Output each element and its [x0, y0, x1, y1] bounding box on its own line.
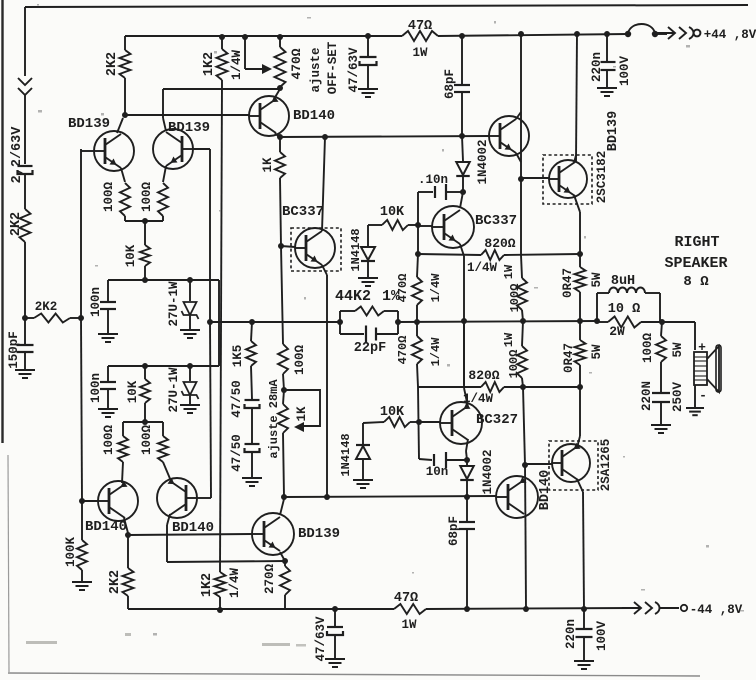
page border bottom-left corner: [8, 455, 9, 672]
transistor Q10 BC327 limiter bottom: [440, 402, 482, 444]
capacitor .10n top: [418, 191, 433, 193]
ground 100n lower: [98, 408, 118, 410]
label -44.8V: [690, 603, 743, 617]
svg-text:0R47: 0R47: [561, 268, 575, 298]
svg-text:1K2: 1K2: [200, 573, 215, 597]
wire Q13 emitter: [577, 436, 580, 448]
wire lower tail join: [123, 421, 163, 423]
wire Q2 emitter: [163, 166, 166, 182]
node 1K2 rail: [219, 34, 225, 40]
svg-text:47Ω: 47Ω: [408, 19, 432, 34]
wire feedback node line: [210, 321, 340, 323]
resistor 100R 1W upper: [521, 255, 522, 278]
svg-text:100V: 100V: [618, 56, 632, 87]
node Q12 collector rail: [523, 606, 529, 612]
resistor 10K limiter bottom: [384, 417, 410, 427]
svg-text:BC327: BC327: [476, 412, 518, 428]
node BD139 bottom collector: [281, 494, 287, 500]
svg-text:1/4W: 1/4W: [228, 568, 242, 599]
resistor 100R lower pair right: [158, 436, 168, 462]
node Q1 collector: [122, 112, 128, 118]
node input net: [78, 315, 84, 321]
node 10K row lower: [142, 363, 148, 369]
wire Q7 emitter: [460, 244, 464, 256]
svg-text:10 Ω: 10 Ω: [608, 302, 640, 317]
svg-text:100Ω: 100Ω: [140, 425, 154, 456]
node 10K row: [142, 277, 148, 283]
arrow chevrons -44.8V: [622, 602, 660, 614]
resistor 10K tail: [140, 245, 150, 266]
wire bias row lower: [108, 365, 219, 367]
capacitor 10n bottom: [419, 459, 432, 460]
terminal circle +44.8V: [694, 30, 701, 37]
svg-text:1N4002: 1N4002: [476, 139, 490, 184]
wire output bus: [398, 321, 597, 322]
capacitor 22pF feedback: [340, 333, 364, 335]
wire Q4 emitter: [163, 462, 171, 481]
wire 100R column to base node: [523, 387, 525, 465]
wire speaker to ground: [694, 385, 696, 407]
wire Q2 collector: [163, 118, 166, 131]
transistor Q8 BD139 driver right: [489, 116, 529, 156]
svg-text:100n: 100n: [89, 287, 103, 317]
ground speaker: [686, 407, 704, 409]
resistor 1K Q5 collector: [279, 137, 281, 152]
ground zener lower: [180, 404, 200, 406]
node 1K2 bottom rail: [217, 607, 223, 613]
label right speaker: [674, 234, 719, 251]
node clamp top: [460, 189, 466, 195]
svg-text:100Ω: 100Ω: [507, 350, 521, 379]
ground 47/63V: [358, 88, 378, 90]
ground 220n rail: [597, 87, 617, 89]
capacitor 150pF to ground: [24, 318, 26, 344]
svg-text:100Ω: 100Ω: [140, 182, 154, 213]
inductor 8uH: [596, 293, 598, 321]
ground 47/63V bottom: [325, 658, 345, 660]
node 68pF line: [459, 133, 465, 139]
svg-text:1K2: 1K2: [202, 52, 217, 76]
wire 2K2 down: [124, 78, 126, 115]
node 100R column output: [520, 318, 526, 324]
node BC337 base: [278, 243, 284, 249]
svg-text:2SA1265: 2SA1265: [599, 439, 613, 492]
resistor 820R 1/4W bottom: [481, 382, 504, 392]
node 100R column bottom: [520, 384, 526, 390]
diode 1N4002 top: [462, 136, 463, 161]
wire pre-driver line: [280, 136, 489, 137]
svg-text:1N4148: 1N4148: [349, 228, 363, 271]
node output rail emitters: [577, 318, 583, 324]
diode 1N4148 bottom: [362, 423, 364, 444]
wire Q2 collector to BD140 emitter line: [163, 88, 280, 90]
svg-text:BD139: BD139: [606, 111, 621, 152]
wire lower driver line: [284, 496, 497, 497]
node 68pF bottom: [464, 494, 470, 500]
wire trimpot wiper link: [244, 37, 246, 69]
wire Q1 collector: [117, 118, 123, 133]
resistor 10K lower tail: [144, 366, 146, 379]
svg-text:0R47: 0R47: [562, 343, 576, 373]
wire Q3 base: [82, 500, 99, 502]
node trimpot wiper link rail: [242, 34, 248, 40]
svg-text:22pF: 22pF: [354, 341, 386, 356]
svg-text:1/4W: 1/4W: [429, 273, 443, 303]
page border left edge: [1, 0, 3, 443]
svg-text:100Ω: 100Ω: [102, 425, 116, 456]
capacitor 47/50 feedback lower: [245, 443, 260, 445]
node output: [659, 319, 665, 325]
svg-text:470Ω: 470Ω: [289, 48, 304, 79]
wire Q11 collector: [280, 499, 284, 515]
capacitor 47/63V bottom: [334, 609, 336, 626]
node Q11 emitter: [282, 558, 288, 564]
capacitor 2,2/63V input coupling: [18, 165, 33, 167]
wire Q1 base: [81, 150, 95, 152]
wire driver bottom collector row: [128, 534, 252, 535]
svg-text:47Ω: 47Ω: [394, 591, 418, 606]
node 47/63V bottom: [332, 606, 338, 612]
svg-text:-44 ,8V: -44 ,8V: [690, 603, 743, 617]
node 0R47 top: [577, 251, 583, 257]
resistor 0R47 5W upper: [579, 254, 581, 267]
svg-text:2K2: 2K2: [9, 212, 24, 236]
wire to +44.8V terminal: [655, 33, 667, 35]
svg-text:68pF: 68pF: [443, 69, 457, 99]
node lower base: [79, 498, 85, 504]
svg-text:2K2: 2K2: [35, 300, 58, 314]
wire BC337 base: [281, 246, 295, 247]
svg-text:SPEAKER: SPEAKER: [664, 255, 727, 272]
resistor 1K5 feedback shunt: [251, 322, 252, 341]
node tail: [142, 218, 148, 224]
node 68pF rail: [459, 33, 465, 39]
node 47/63V rail: [365, 33, 371, 39]
svg-text:BC337: BC337: [282, 204, 324, 220]
node 44K2 left: [337, 319, 343, 325]
svg-text:820Ω: 820Ω: [468, 368, 499, 383]
node BC327 base: [416, 419, 422, 425]
wire Q10 emitter: [464, 388, 468, 407]
wire Q2 base: [193, 148, 210, 150]
svg-text:10n: 10n: [426, 465, 449, 479]
svg-text:2K2: 2K2: [108, 570, 123, 594]
wire Q8 collector: [516, 112, 521, 119]
node lower tail: [142, 419, 148, 425]
wire input column lower: [24, 242, 26, 318]
svg-text:44K2: 44K2: [335, 288, 371, 305]
wire to speaker: [662, 321, 695, 323]
transistor Q3 BD140 lower left: [98, 481, 138, 521]
node emitter column output: [461, 318, 467, 324]
wire Q9 collector: [574, 155, 576, 163]
ground 100K: [72, 581, 92, 583]
page border bottom edge: [8, 673, 700, 676]
resistor 2K2 input series: [20, 209, 31, 242]
svg-text:1W: 1W: [502, 332, 516, 347]
node 470R bottom: [277, 85, 283, 91]
wire clamp to base: [417, 192, 419, 225]
wire 2SA1265 base: [525, 463, 552, 465]
resistor 2K2 horizontal to input node: [35, 300, 58, 314]
wire input column upper: [24, 95, 26, 164]
svg-text:1K: 1K: [261, 157, 275, 173]
wire Q13 collector: [577, 479, 583, 492]
svg-text:270Ω: 270Ω: [263, 564, 277, 595]
transistor Q5 BD140 driver top: [249, 96, 289, 136]
node output mid: [414, 319, 420, 325]
wire 820R row bottom: [418, 386, 481, 388]
node VAS emitter bottom: [324, 494, 330, 500]
svg-text:47/50: 47/50: [230, 380, 244, 418]
svg-text:BD139: BD139: [298, 526, 340, 542]
svg-text:1N4002: 1N4002: [481, 449, 495, 494]
arrow trimpot wiper: [262, 64, 272, 74]
node coil left: [594, 318, 600, 324]
wire 470R column top: [417, 225, 419, 254]
node 1K5 divider: [249, 319, 255, 325]
node BD139 right collector rail: [518, 31, 524, 37]
svg-text:1N4148: 1N4148: [339, 433, 353, 476]
wire Q2 base long vertical: [209, 149, 211, 322]
svg-text:2K2: 2K2: [105, 52, 120, 76]
svg-text:47/63V: 47/63V: [347, 47, 361, 93]
trimpot 470R ajuste OFF-SET: [275, 47, 286, 87]
wire Q12 emitter: [524, 465, 527, 530]
terminal circle -44.8V: [681, 605, 687, 611]
ground 1N4148 top: [358, 277, 378, 279]
wire pot wiper loop: [284, 390, 320, 426]
resistor 1K2 bottom: [215, 572, 226, 597]
node VAS collector line: [322, 134, 328, 140]
wire Q5 collector: [275, 133, 280, 138]
diode 1N4002 bottom: [466, 460, 468, 465]
resistor 0R47 5W lower: [579, 321, 581, 340]
svg-text:1W: 1W: [502, 264, 516, 279]
node 0R47 bottom: [577, 384, 583, 390]
svg-text:100Ω: 100Ω: [641, 333, 655, 364]
fuse top rail: [625, 31, 631, 37]
resistor 10R 2W output: [608, 317, 641, 328]
svg-text:470Ω: 470Ω: [396, 336, 410, 365]
wire Q3 emitter: [122, 462, 123, 483]
capacitor 47/63V rail decoupling: [360, 56, 377, 58]
wire input column mid: [24, 175, 26, 209]
svg-text:OFF-SET: OFF-SET: [326, 41, 340, 94]
svg-text:1K: 1K: [295, 406, 309, 422]
svg-text:100Ω: 100Ω: [293, 345, 307, 376]
wire Q7 emitter column: [463, 256, 465, 385]
svg-text:220n: 220n: [564, 619, 578, 649]
wire 470R lower to row: [418, 387, 419, 459]
svg-text:220n: 220n: [590, 52, 604, 82]
svg-text:68pF: 68pF: [447, 516, 461, 546]
transistor Q2 BD139 input right: [153, 129, 193, 169]
svg-text:100Ω: 100Ω: [102, 182, 116, 213]
svg-text:8uH: 8uH: [611, 274, 635, 289]
input marker chevrons: [18, 78, 32, 85]
resistor 100R lower pair left: [118, 436, 128, 462]
svg-text:RIGHT: RIGHT: [674, 234, 719, 251]
svg-text:2W: 2W: [609, 324, 625, 339]
svg-text:27U-1W: 27U-1W: [167, 281, 181, 327]
transistor Q6 BC337 VAS: [291, 228, 341, 271]
transistor Q9 2SC3182 output top: [543, 155, 592, 204]
node bias pot top: [281, 387, 287, 393]
wire Q9 emitter: [574, 195, 580, 212]
ground feedback caps: [242, 477, 262, 479]
node 44K2 right: [395, 319, 401, 325]
transistor Q12 BD140 driver output bottom: [496, 476, 538, 518]
svg-text:100n: 100n: [89, 373, 103, 403]
resistor 270R: [284, 561, 286, 566]
wire Q7 base: [418, 225, 432, 227]
svg-text:1K5: 1K5: [231, 345, 245, 368]
svg-text:5W: 5W: [671, 342, 685, 358]
transistor Q13 2SA1265 output bottom: [549, 441, 598, 490]
wire tail down: [144, 221, 146, 245]
svg-text:-: -: [699, 388, 707, 403]
wire Q4 collector row: [167, 561, 285, 562]
resistor 47R 1W top rail: [402, 31, 438, 41]
wire Q11 emitter: [280, 552, 285, 561]
resistor 100R 5W zobel: [661, 322, 662, 336]
capacitor 220n 100V bottom: [583, 609, 585, 628]
scan noise dashes bottom: [26, 633, 306, 647]
capacitor 68pF bottom: [466, 497, 468, 521]
wire Q8 base: [488, 135, 490, 137]
svg-text:BD139: BD139: [168, 120, 210, 136]
capacitor 47/50 feedback upper: [245, 399, 260, 401]
node BC337R base: [415, 222, 421, 228]
node clamp bottom: [464, 457, 470, 463]
wire 820R row top: [418, 254, 481, 255]
wire Q7-Q10 emitter column lower: [463, 321, 465, 388]
svg-text:1/4W: 1/4W: [467, 261, 498, 275]
diode 1N4148 top: [367, 225, 369, 246]
node zener row lower: [187, 363, 193, 369]
resistor 10K limiter top: [382, 220, 408, 230]
svg-text:5W: 5W: [590, 272, 604, 288]
svg-text:BD140: BD140: [538, 470, 553, 511]
ground zobel: [651, 424, 671, 426]
capacitor 220N 250V zobel: [652, 392, 670, 394]
node 220n rail: [604, 31, 610, 37]
ground 1N4148 bottom: [353, 479, 373, 481]
wire 1K2 long line down to lower stage: [220, 80, 222, 572]
node Q3 collector: [125, 532, 131, 538]
svg-text:150pF: 150pF: [7, 331, 21, 369]
resistor 47R 1W bottom rail: [394, 604, 426, 614]
svg-text:10K: 10K: [380, 205, 405, 220]
svg-text:2,2/63V: 2,2/63V: [10, 126, 25, 184]
wire Q8 emitter to 100R column: [520, 179, 522, 255]
resistor 100R bias chain: [281, 246, 283, 344]
wire +44.8V rail: [125, 35, 402, 37]
wire bias row upper: [108, 279, 219, 281]
wire Q12 collector: [525, 530, 528, 609]
svg-text:470Ω: 470Ω: [396, 274, 410, 303]
node 2K2 rail: [124, 36, 126, 50]
resistor 1K2 1/4W: [217, 49, 228, 80]
wire bias chain down: [283, 433, 284, 497]
ground 100n upper: [98, 333, 118, 335]
node 820R row top: [415, 251, 421, 257]
svg-text:ajuste: ajuste: [309, 47, 323, 92]
wire -44.8V rail: [128, 608, 394, 610]
capacitor 100n upper: [107, 280, 109, 301]
resistor 820R 1/4W top: [481, 250, 504, 260]
resistor 470R 1/4W lower: [416, 322, 418, 336]
svg-text:47/50: 47/50: [230, 434, 244, 472]
ground 150pF: [15, 369, 35, 371]
node 2SC3182 base: [518, 176, 524, 182]
svg-text:ajuste 28mA: ajuste 28mA: [267, 379, 281, 459]
resistor 100R Q1 emitter: [120, 183, 130, 216]
label +44.8V: [704, 28, 756, 42]
svg-text:8 Ω: 8 Ω: [683, 274, 709, 290]
speaker: [698, 340, 706, 355]
wire Q11 base: [251, 533, 253, 535]
node Q5 collector: [277, 134, 283, 140]
wire Q1 emitter: [121, 168, 125, 182]
wire Q5 emitter to 470R bottom: [274, 89, 280, 99]
node 470R rail: [277, 34, 283, 40]
wire Q10 collector: [466, 439, 468, 451]
node 68pF bottom rail: [464, 606, 470, 612]
svg-text:1W: 1W: [412, 46, 428, 60]
wire Q6 emitter: [322, 265, 327, 275]
wire Q3 collector: [124, 518, 128, 533]
ground zener upper: [180, 329, 200, 331]
wire Q10 base: [419, 421, 440, 423]
ground 220n bottom: [574, 660, 594, 662]
zener 27V-1W upper: [189, 280, 191, 301]
transistor Q7 BC337 limiter top: [432, 206, 474, 248]
transistor Q1 BD139 input left: [94, 131, 134, 171]
svg-text:2SC3182: 2SC3182: [595, 151, 609, 204]
svg-text:47/63V: 47/63V: [314, 616, 328, 662]
svg-text:BC337: BC337: [475, 213, 517, 229]
node feedback tap: [207, 319, 213, 325]
wire Q8 emitter: [516, 153, 521, 162]
capacitor 100n lower: [107, 366, 109, 381]
svg-text:820Ω: 820Ω: [484, 236, 515, 251]
resistor 44K2 1% feedback: [339, 311, 341, 334]
node 2SA1265 base: [522, 462, 528, 468]
resistor 100K input return: [81, 501, 83, 540]
svg-text:1/4W: 1/4W: [230, 50, 244, 81]
svg-text:10K: 10K: [380, 405, 405, 420]
wire top-left vertical drop: [24, 7, 26, 76]
resistor 100R Q2 emitter: [158, 183, 168, 216]
arrow chevrons +44.8V: [656, 27, 694, 39]
node Q13 collector rail: [581, 606, 587, 612]
wire collector line to BD140 base: [125, 114, 249, 116]
svg-text:5W: 5W: [590, 344, 604, 360]
wire emitters join: [125, 220, 163, 222]
resistor 2K2 from rail to Q1 collector: [120, 50, 131, 78]
wire Q7 collector: [460, 192, 463, 208]
wire bias rows connector: [218, 280, 220, 366]
svg-text:+44 ,8V: +44 ,8V: [704, 28, 756, 42]
wire Q6 collector: [322, 137, 325, 231]
wire Q4 collector: [167, 514, 170, 525]
resistor 2K2 bottom: [127, 535, 129, 568]
node input bottom: [22, 315, 28, 321]
node zener row upper: [187, 277, 193, 283]
svg-text:220N: 220N: [640, 381, 654, 411]
